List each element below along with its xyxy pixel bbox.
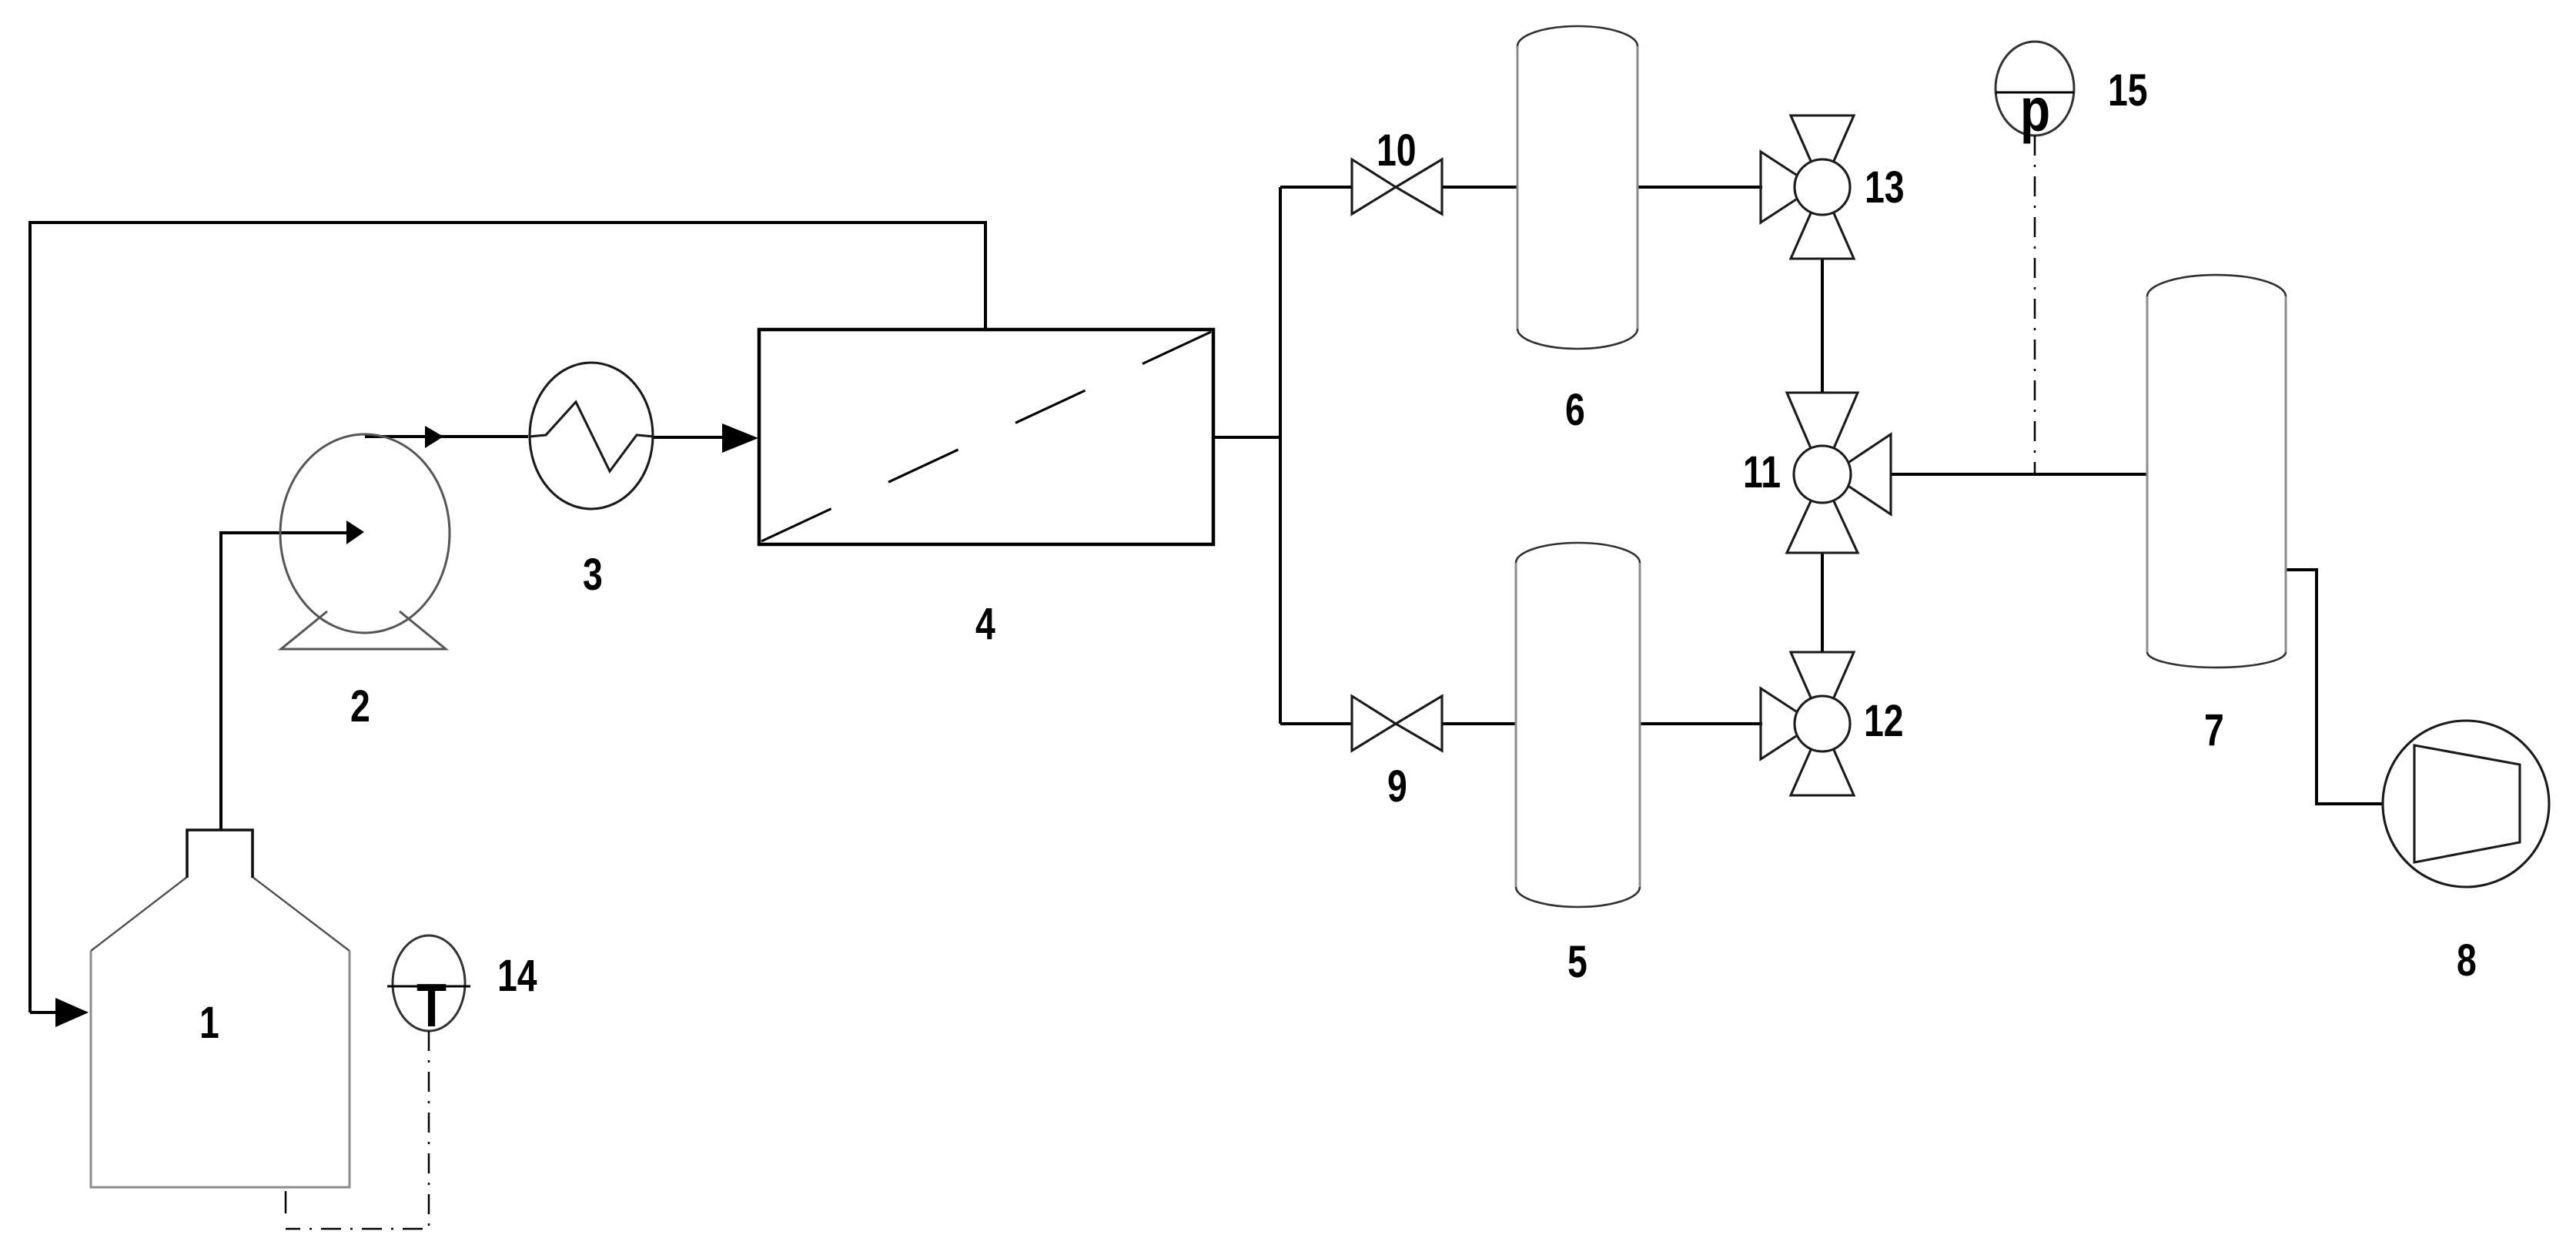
svg-text:p: p	[2020, 75, 2050, 144]
svg-text:7: 7	[2204, 705, 2224, 755]
svg-text:14: 14	[497, 951, 537, 1001]
svg-text:13: 13	[1865, 162, 1905, 213]
svg-text:15: 15	[2108, 65, 2148, 115]
svg-text:3: 3	[583, 550, 603, 600]
svg-text:5: 5	[1567, 937, 1587, 987]
svg-text:12: 12	[1864, 696, 1904, 746]
svg-text:T: T	[417, 971, 447, 1039]
svg-text:9: 9	[1387, 761, 1407, 812]
svg-text:11: 11	[1743, 447, 1781, 497]
svg-text:8: 8	[2457, 935, 2477, 986]
svg-text:1: 1	[199, 998, 219, 1048]
svg-text:6: 6	[1565, 385, 1585, 435]
svg-text:4: 4	[975, 599, 995, 649]
svg-text:10: 10	[1377, 125, 1417, 176]
svg-text:2: 2	[350, 681, 370, 731]
